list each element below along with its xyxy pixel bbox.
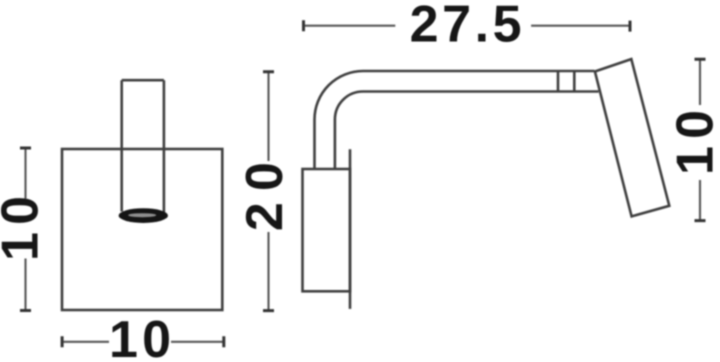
svg-text:10: 10 [0,196,49,261]
svg-text:10: 10 [667,110,720,175]
svg-text:20: 20 [236,162,294,231]
svg-text:27.5: 27.5 [410,0,522,53]
svg-text:10: 10 [109,311,171,362]
